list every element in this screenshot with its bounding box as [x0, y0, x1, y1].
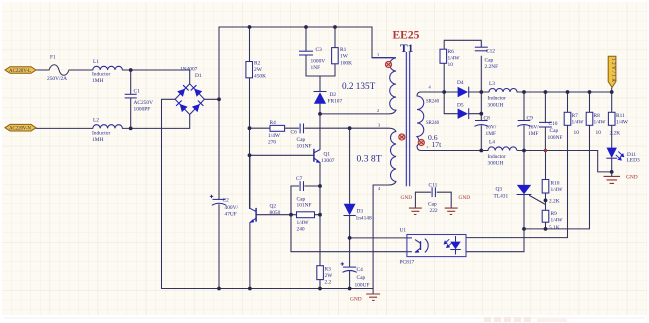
svg-text:Cap: Cap	[550, 128, 559, 134]
svg-text:D3: D3	[357, 209, 364, 215]
svg-text:1MH: 1MH	[92, 137, 103, 143]
svg-text:C6: C6	[291, 130, 298, 136]
svg-text:300UH: 300UH	[488, 161, 504, 167]
svg-text:1000PF: 1000PF	[134, 107, 151, 113]
svg-text:SR240: SR240	[426, 121, 440, 126]
svg-text:Q1: Q1	[324, 152, 331, 158]
svg-text:Inductor: Inductor	[92, 131, 110, 137]
svg-text:T1: T1	[400, 43, 414, 55]
svg-text:2: 2	[377, 108, 379, 113]
svg-text:C9: C9	[527, 116, 534, 122]
svg-text:TL431: TL431	[494, 194, 509, 200]
svg-text:SR240: SR240	[426, 100, 440, 105]
svg-text:1/4W: 1/4W	[551, 218, 564, 224]
svg-text:8050: 8050	[270, 210, 281, 216]
svg-text:L1: L1	[93, 59, 99, 65]
svg-text:D1: D1	[195, 73, 202, 79]
svg-text:2W: 2W	[325, 273, 334, 279]
svg-text:FR107: FR107	[328, 99, 343, 105]
svg-text:AC220V-L: AC220V-L	[9, 69, 31, 74]
svg-text:C8: C8	[484, 116, 491, 122]
svg-text:C10: C10	[549, 121, 558, 127]
svg-text:240: 240	[297, 227, 305, 233]
svg-text:0.3 8T: 0.3 8T	[357, 154, 382, 165]
svg-text:PC817: PC817	[400, 260, 415, 266]
svg-text:R7: R7	[572, 113, 579, 119]
svg-text:R3: R3	[325, 267, 332, 273]
svg-text:Cap: Cap	[428, 202, 437, 208]
svg-text:2.2K: 2.2K	[610, 131, 621, 137]
svg-text:C3: C3	[316, 47, 323, 53]
svg-text:101NF: 101NF	[297, 144, 312, 150]
svg-text:300UH: 300UH	[488, 103, 504, 109]
svg-text:AC250V: AC250V	[134, 100, 154, 106]
svg-text:1W: 1W	[340, 54, 349, 60]
svg-text:C1: C1	[134, 89, 141, 95]
svg-text:1MF: 1MF	[528, 131, 539, 137]
svg-text:C12: C12	[486, 49, 495, 55]
svg-text:100K: 100K	[340, 61, 352, 67]
svg-text:100UF: 100UF	[355, 283, 370, 289]
svg-text:47UF: 47UF	[225, 212, 237, 218]
svg-text:1/4W: 1/4W	[448, 56, 461, 62]
svg-text:D4: D4	[457, 80, 464, 86]
svg-text:2.2K: 2.2K	[549, 199, 560, 205]
svg-text:100NF: 100NF	[548, 135, 563, 141]
svg-text:R9: R9	[551, 211, 558, 217]
svg-text:GND: GND	[401, 195, 413, 201]
svg-text:Inductor: Inductor	[92, 72, 110, 78]
svg-text:Inductor: Inductor	[488, 96, 506, 102]
svg-text:2W: 2W	[254, 67, 263, 73]
svg-text:10: 10	[596, 130, 602, 136]
svg-text:17t: 17t	[432, 140, 443, 149]
svg-text:16V/: 16V/	[486, 125, 497, 131]
svg-text:2.2NF: 2.2NF	[485, 64, 499, 70]
svg-text:Cap: Cap	[485, 58, 494, 64]
svg-text:EE25: EE25	[393, 30, 420, 42]
svg-text:1N4007: 1N4007	[180, 67, 198, 73]
svg-text:R2: R2	[254, 61, 261, 67]
svg-text:1/4W: 1/4W	[297, 220, 310, 226]
svg-text:270: 270	[268, 140, 276, 146]
svg-text:C7: C7	[296, 176, 303, 182]
svg-text:10: 10	[574, 130, 580, 136]
svg-text:1/4W: 1/4W	[268, 133, 281, 139]
svg-text:101NF: 101NF	[297, 203, 312, 209]
svg-text:L4: L4	[489, 140, 495, 146]
svg-text:0.2 135T: 0.2 135T	[342, 81, 376, 91]
svg-text:1: 1	[377, 52, 379, 57]
svg-text:C11: C11	[429, 183, 438, 189]
svg-text:C2: C2	[223, 198, 230, 204]
svg-text:Q2: Q2	[270, 204, 277, 210]
svg-text:GND: GND	[626, 175, 638, 181]
svg-text:2.2: 2.2	[325, 280, 332, 286]
svg-text:F1: F1	[50, 55, 56, 61]
svg-text:450K: 450K	[254, 74, 266, 80]
svg-text:R8: R8	[594, 113, 601, 119]
svg-text:D2: D2	[330, 92, 337, 98]
svg-text:1/4W: 1/4W	[594, 120, 607, 126]
svg-text:222: 222	[430, 208, 438, 214]
svg-text:1MH: 1MH	[92, 78, 103, 84]
svg-text:1/4W: 1/4W	[551, 187, 564, 193]
svg-text:16V/: 16V/	[528, 125, 539, 131]
svg-text:1/4W: 1/4W	[572, 120, 585, 126]
svg-text:L3: L3	[489, 81, 495, 87]
svg-text:AC220V-N: AC220V-N	[9, 127, 31, 132]
svg-text:LED3: LED3	[627, 158, 640, 164]
svg-text:GND: GND	[350, 297, 362, 303]
svg-text:Q3: Q3	[496, 187, 503, 193]
svg-text:1/4W: 1/4W	[616, 120, 629, 126]
svg-text:GND: GND	[459, 195, 471, 201]
svg-text:1n4148: 1n4148	[356, 216, 372, 222]
svg-text:13007: 13007	[321, 158, 335, 164]
svg-text:400V/: 400V/	[225, 205, 239, 211]
svg-text:L2: L2	[93, 118, 99, 124]
svg-text:5.1K: 5.1K	[549, 225, 560, 231]
svg-text:R1: R1	[340, 47, 347, 53]
svg-text:D5: D5	[457, 103, 464, 109]
svg-text:Inductor: Inductor	[488, 154, 506, 160]
svg-text:R4: R4	[270, 120, 277, 126]
svg-text:1NF: 1NF	[311, 65, 321, 71]
svg-text:R11: R11	[616, 113, 625, 119]
svg-text:10: 10	[448, 62, 454, 68]
svg-text:U1: U1	[400, 228, 407, 234]
svg-text:R6: R6	[448, 49, 455, 55]
svg-text:R10: R10	[551, 181, 560, 187]
svg-text:1000V: 1000V	[311, 59, 326, 65]
svg-text:C4: C4	[357, 267, 364, 273]
svg-text:1MF: 1MF	[486, 131, 497, 137]
svg-text:250V/2A: 250V/2A	[47, 76, 67, 82]
svg-text:Cap: Cap	[297, 137, 306, 143]
svg-text:Cap: Cap	[357, 275, 366, 281]
